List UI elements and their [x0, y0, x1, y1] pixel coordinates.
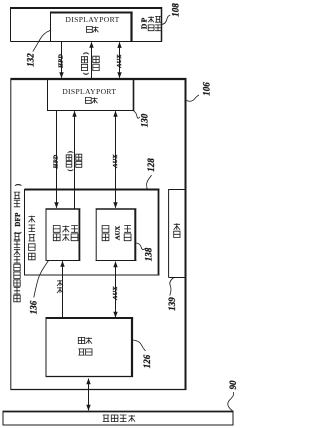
leader to label 139	[170, 278, 174, 296]
box 128 downstream processor outline	[25, 189, 160, 276]
svg-text:130: 130	[140, 113, 150, 127]
text jiekou col in 139	[174, 223, 180, 237]
label HPD upper	[57, 54, 64, 69]
box 138 downstream AUX engine outline	[96, 209, 137, 262]
label 138	[144, 247, 154, 261]
svg-text:): )	[14, 183, 22, 186]
svg-text:AUX: AUX	[112, 286, 119, 301]
label (duoge) middle	[66, 151, 74, 171]
label tongdao (lanes) upper	[93, 56, 99, 70]
svg-text:AUX: AUX	[115, 226, 122, 241]
box 126 expansion interface outline	[46, 317, 134, 377]
svg-text:DP: DP	[140, 17, 149, 30]
label AUX middle	[112, 154, 119, 169]
wire AUX upper	[117, 42, 121, 78]
label 90	[228, 380, 238, 390]
label 106	[202, 82, 212, 96]
wire lanes upper	[89, 42, 93, 79]
svg-text:DFP: DFP	[15, 212, 22, 226]
wire expansion double arrow	[86, 378, 90, 411]
svg-text:139: 139	[167, 297, 177, 311]
text jiekou (interface) in box 132	[87, 27, 99, 33]
text jiekou col in 126	[86, 337, 92, 355]
text DISPLAYPORT in box 130	[62, 87, 116, 96]
wire AUX lower	[113, 261, 117, 318]
svg-text:): )	[82, 52, 89, 54]
svg-text:126: 126	[142, 354, 152, 368]
leader to label 106	[187, 95, 200, 101]
label AUX upper	[116, 54, 123, 69]
svg-text:136: 136	[29, 300, 39, 314]
label 126	[142, 354, 152, 368]
label HPD middle	[52, 154, 59, 169]
box 139 interface port outline	[169, 189, 187, 278]
box 130 DISPLAYPORT interface	[47, 80, 134, 111]
box 108 DP sink device outline	[11, 7, 163, 42]
leader to label 108	[161, 15, 170, 25]
text mianxiangxiayou DFP device vertical label	[14, 183, 22, 302]
leader to label 132	[33, 31, 50, 52]
label (duoge) upper	[81, 52, 89, 75]
leader to label 136	[34, 261, 49, 298]
wire AUX middle	[113, 111, 117, 209]
svg-text:(: (	[82, 73, 89, 75]
text xiayouchuliqi (downstream processor) vertical	[29, 216, 36, 260]
text DP in box 108	[140, 17, 149, 30]
text shipin col in 136	[62, 226, 69, 241]
box 136 downstream video engine outline	[46, 209, 81, 261]
leader to label 138	[136, 243, 145, 250]
svg-text:132: 132	[26, 53, 36, 67]
wire lanes middle	[72, 111, 76, 209]
label 132	[26, 53, 36, 67]
label shipin (video) lower	[57, 280, 63, 293]
leader to label 90	[228, 392, 234, 411]
svg-text:108: 108	[171, 3, 181, 17]
text yinqing col in 138	[124, 226, 131, 241]
label 139	[167, 297, 177, 311]
svg-text:138: 138	[144, 247, 154, 261]
svg-text:): )	[67, 151, 74, 153]
leader to label 126	[133, 340, 146, 351]
text yinqing col in 136	[71, 226, 78, 241]
leader to label 130	[134, 111, 141, 118]
text AUX col in 138	[115, 226, 122, 241]
svg-text:AUX: AUX	[116, 54, 123, 69]
svg-text:HPD: HPD	[52, 154, 59, 169]
wire HPD upper	[59, 42, 63, 79]
svg-text:90: 90	[228, 380, 238, 390]
svg-text:AUX: AUX	[112, 154, 119, 169]
label AUX lower	[112, 286, 119, 301]
text jieshou (receive) col in box 108	[148, 16, 154, 30]
label 108	[171, 3, 181, 17]
label 130	[140, 113, 150, 127]
text jiekou in box 130	[85, 98, 97, 104]
box 90 expansion medium bar	[3, 411, 234, 426]
wire video lower	[60, 261, 64, 318]
box 106 downstream facing port device outline	[11, 78, 187, 390]
svg-text:(: (	[67, 169, 74, 171]
label 128	[146, 158, 156, 172]
svg-text:DISPLAYPORT: DISPLAYPORT	[62, 87, 116, 96]
text kuozhanjiezhi (expansion medium) in bar	[103, 415, 135, 422]
wire HPD middle	[54, 111, 58, 209]
text kuozhan col in 126	[78, 337, 84, 355]
text DISPLAYPORT in box 132	[65, 15, 119, 24]
text xiayou col in 136	[53, 226, 60, 241]
label 136	[29, 300, 39, 314]
text xiayou col in 138	[102, 226, 109, 241]
svg-text:106: 106	[202, 82, 212, 96]
text zhuangzhi (device) col in box 108	[155, 16, 161, 30]
svg-text:128: 128	[146, 158, 156, 172]
leader to label 128	[147, 175, 152, 191]
box 132 DISPLAYPORT interface of sink	[50, 12, 133, 42]
svg-text:DISPLAYPORT: DISPLAYPORT	[65, 15, 119, 24]
svg-text:HPD: HPD	[57, 54, 64, 69]
label tongdao middle	[76, 154, 82, 167]
